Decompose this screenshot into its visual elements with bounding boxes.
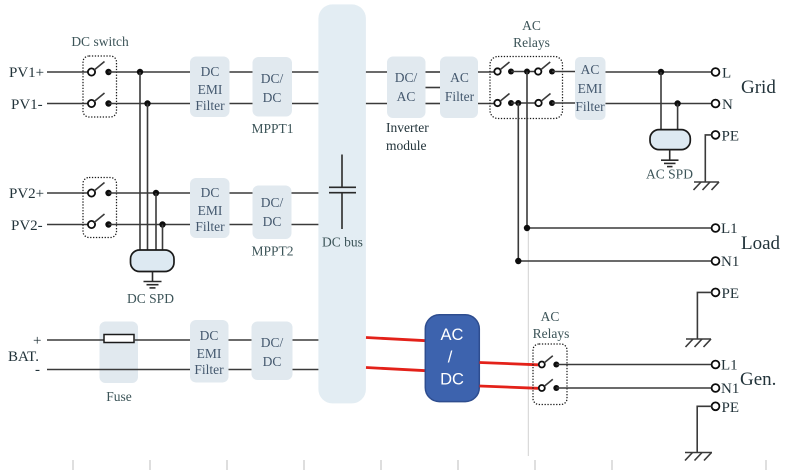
svg-text:DC/: DC/	[261, 335, 284, 350]
svg-text:L: L	[722, 66, 731, 82]
red wire bus to AC/DC bottom	[366, 368, 426, 371]
wire K1b out	[552, 71, 575, 73]
wire PV1- input	[47, 103, 88, 105]
switch S2b	[88, 214, 112, 228]
svg-text:EMI: EMI	[197, 346, 222, 361]
svg-text:Relays: Relays	[533, 326, 570, 341]
chassis ground PE load	[686, 339, 712, 347]
terminal load N1	[712, 257, 720, 265]
wire AC filter to relays N	[478, 103, 495, 105]
svg-text:N1: N1	[721, 381, 739, 397]
wire N to grid terminal	[606, 103, 712, 105]
svg-text:PV1-: PV1-	[11, 97, 43, 113]
wire PE load to ground	[697, 292, 711, 339]
svg-text:/: /	[448, 349, 453, 367]
svg-text:Filter: Filter	[194, 362, 224, 377]
wire PV2- to DC EMI filter	[109, 224, 191, 226]
fuse F1	[104, 335, 134, 343]
junction load L1	[524, 225, 530, 231]
svg-text:-: -	[35, 362, 40, 378]
svg-text:Inverter: Inverter	[386, 120, 429, 135]
junction L to SPD	[658, 69, 664, 75]
red wire AC/DC to relay bottom	[480, 386, 539, 388]
svg-text:Filter: Filter	[195, 98, 225, 113]
wire bus to inverter bottom	[366, 103, 387, 105]
wire PV1+ to DC EMI filter	[109, 71, 191, 73]
svg-text:DC bus: DC bus	[322, 235, 363, 250]
AC SPD ground lead	[669, 150, 671, 160]
relay K1b	[535, 62, 555, 75]
AC SPD earth ground	[661, 160, 679, 166]
AC Filter block U6	[440, 57, 478, 119]
wire L down to AC SPD	[660, 72, 662, 131]
DC/DC converter block U4	[252, 322, 293, 381]
svg-text:DC: DC	[440, 371, 464, 389]
terminal load L1	[712, 224, 720, 232]
wire gen N1	[556, 387, 711, 389]
capacitor C1 top lead	[341, 155, 343, 187]
relay K1c	[494, 94, 514, 107]
svg-text:DC switch: DC switch	[71, 34, 129, 49]
wire PV2- input	[47, 224, 88, 226]
DC SPD body	[131, 250, 175, 272]
relay K2b	[539, 379, 560, 391]
wire PV1- to DC EMI filter	[109, 103, 191, 105]
chassis ground PE grid	[694, 182, 720, 190]
junction N to load	[515, 100, 521, 106]
relay K2a	[539, 356, 560, 368]
svg-text:DC: DC	[201, 64, 220, 79]
wire K1d out	[552, 102, 575, 104]
AC relays K2 dashed box	[533, 344, 567, 405]
wire load N1	[518, 260, 711, 262]
svg-text:AC: AC	[397, 89, 416, 104]
svg-text:Relays: Relays	[513, 35, 550, 50]
switch S1a	[88, 62, 112, 76]
wire N junction down to N1	[517, 103, 519, 261]
label: Inverter module	[386, 120, 429, 153]
DC/AC inverter block U5	[387, 57, 426, 119]
wire inverter to AC filter line2	[426, 87, 441, 89]
DC bus bar	[318, 4, 366, 403]
DC EMI Filter block U2	[190, 178, 230, 238]
terminal gen N1	[712, 384, 720, 392]
wire U4 to bus bottom	[293, 369, 320, 371]
terminal PE gen	[712, 402, 720, 410]
chassis ground PE gen	[685, 453, 712, 461]
wire PV1+ input	[47, 71, 88, 73]
AC EMI Filter block U7	[575, 57, 606, 120]
switch S2a	[88, 183, 112, 197]
capacitor C1 plates	[329, 187, 356, 192]
label: AC Relays (grid)	[513, 18, 550, 50]
DC/DC converter block MPPT1	[253, 57, 293, 117]
wire U1 to DC/DC1 top	[230, 71, 253, 73]
svg-text:AC: AC	[450, 70, 469, 85]
svg-text:Grid: Grid	[741, 77, 776, 98]
svg-text:Filter: Filter	[195, 219, 225, 234]
svg-text:MPPT2: MPPT2	[251, 244, 293, 259]
svg-text:Load: Load	[741, 233, 781, 254]
red wire bus to AC/DC top	[366, 338, 426, 341]
svg-text:DC: DC	[263, 90, 282, 105]
DC EMI Filter block U1	[190, 57, 230, 118]
AC relays K1 dashed box	[490, 57, 563, 119]
svg-text:N: N	[722, 97, 733, 113]
wire U3 to DC/DC3 top	[229, 339, 252, 341]
junction L to load	[524, 69, 530, 75]
wire AC filter to relays L	[478, 71, 495, 73]
DC SPD earth ground	[144, 282, 162, 288]
svg-text:Filter: Filter	[445, 89, 475, 104]
DC SPD ground lead	[152, 272, 154, 282]
svg-text:DC/: DC/	[395, 70, 418, 85]
wire PV2+ input	[47, 192, 88, 194]
label: AC Relays (gen)	[533, 309, 570, 341]
svg-text:PE: PE	[722, 286, 740, 302]
svg-text:AC: AC	[441, 326, 464, 344]
wire MPPT1 to bus top	[292, 71, 319, 73]
svg-text:PV2-: PV2-	[11, 218, 43, 234]
svg-text:EMI: EMI	[578, 81, 603, 96]
svg-text:PE: PE	[722, 129, 740, 145]
terminal gen L1	[712, 361, 720, 369]
terminal PE grid	[712, 131, 720, 139]
svg-text:EMI: EMI	[198, 82, 223, 97]
wire PE gen to ground	[697, 406, 711, 452]
wire PV2+ down to DC SPD	[155, 193, 157, 251]
svg-text:+: +	[33, 333, 41, 349]
wire U2 to DC/DC2 bottom	[230, 224, 253, 226]
wire BAT- to EMI filter U3	[47, 369, 190, 371]
wire N down to AC SPD	[677, 104, 679, 131]
wire PV2+ to DC EMI filter	[109, 192, 191, 194]
AC/DC converter U8	[425, 315, 479, 402]
svg-text:DC SPD: DC SPD	[127, 291, 174, 306]
Fuse background block	[100, 322, 139, 384]
red wire AC/DC to relay top	[480, 363, 539, 365]
relay K1d	[535, 94, 555, 107]
junction PV2-	[159, 221, 165, 227]
DC EMI Filter block U3	[190, 320, 229, 383]
svg-text:L1: L1	[721, 358, 738, 374]
svg-text:AC: AC	[581, 62, 600, 77]
DC switch S2 dashed box	[83, 178, 117, 238]
svg-text:Filter: Filter	[575, 99, 605, 114]
svg-text:AC: AC	[541, 309, 560, 324]
svg-text:module: module	[386, 138, 427, 153]
wire U2 to DC/DC2 top	[230, 192, 253, 194]
wire gen L1	[556, 364, 711, 366]
AC SPD body	[650, 130, 690, 150]
junction PV1+	[137, 69, 143, 75]
wire MPPT2 to bus bottom	[292, 224, 320, 226]
wire MPPT2 to bus top	[292, 192, 320, 194]
junction PV2+	[153, 190, 159, 196]
wire PV1+ down to DC SPD	[139, 72, 141, 251]
svg-text:AC: AC	[522, 18, 541, 33]
svg-text:DC: DC	[263, 354, 282, 369]
wire K1c to K1d	[511, 102, 535, 104]
svg-text:EMI: EMI	[198, 203, 223, 218]
wire MPPT1 to bus bottom	[292, 103, 319, 105]
wire BAT+ to fuse	[47, 339, 104, 341]
svg-text:N1: N1	[721, 254, 739, 270]
wire U1 to DC/DC1 bottom	[230, 103, 253, 105]
junction load N1	[515, 258, 521, 264]
svg-text:PV2+: PV2+	[9, 186, 44, 202]
svg-text:MPPT1: MPPT1	[251, 121, 293, 136]
DC/DC converter block MPPT2	[253, 186, 292, 240]
wire U4 to bus top	[293, 339, 320, 341]
wire bus to inverter top	[366, 71, 387, 73]
terminal N	[712, 100, 720, 108]
wire PV1- down to DC SPD	[147, 104, 149, 252]
wire inverter to AC filter line1	[426, 71, 441, 73]
wire fuse to EMI filter U3	[134, 339, 190, 341]
wire inverter to AC filter line3	[426, 103, 441, 105]
wire PV2- down to DC SPD	[162, 225, 164, 252]
wire U3 to DC/DC3 bottom	[229, 369, 252, 371]
switch S1b	[88, 93, 112, 107]
wire L junction down to L1	[526, 72, 528, 229]
wire K1a to K1b	[511, 71, 535, 73]
svg-text:DC/: DC/	[261, 195, 284, 210]
svg-text:Fuse: Fuse	[106, 389, 132, 404]
svg-text:AC SPD: AC SPD	[646, 167, 693, 182]
relay K1a	[494, 62, 514, 75]
terminal L	[712, 68, 720, 76]
svg-text:DC/: DC/	[261, 71, 284, 86]
svg-text:DC: DC	[200, 328, 219, 343]
junction PV1-	[144, 100, 150, 106]
wire L to grid terminal	[606, 71, 712, 73]
terminal PE load	[712, 289, 720, 297]
svg-text:PV1+: PV1+	[9, 65, 44, 81]
wire PE grid to ground	[705, 135, 711, 182]
wire load L1	[527, 227, 712, 229]
faint column line	[527, 230, 529, 456]
junction N to SPD	[674, 100, 680, 106]
svg-text:DC: DC	[263, 214, 282, 229]
svg-text:L1: L1	[721, 221, 738, 237]
capacitor C1 bottom lead	[341, 193, 343, 229]
DC switch S1 dashed box	[83, 56, 117, 117]
svg-text:PE: PE	[722, 400, 740, 416]
ruler ticks	[73, 460, 766, 470]
svg-text:Gen.: Gen.	[740, 369, 776, 390]
svg-text:DC: DC	[201, 185, 220, 200]
